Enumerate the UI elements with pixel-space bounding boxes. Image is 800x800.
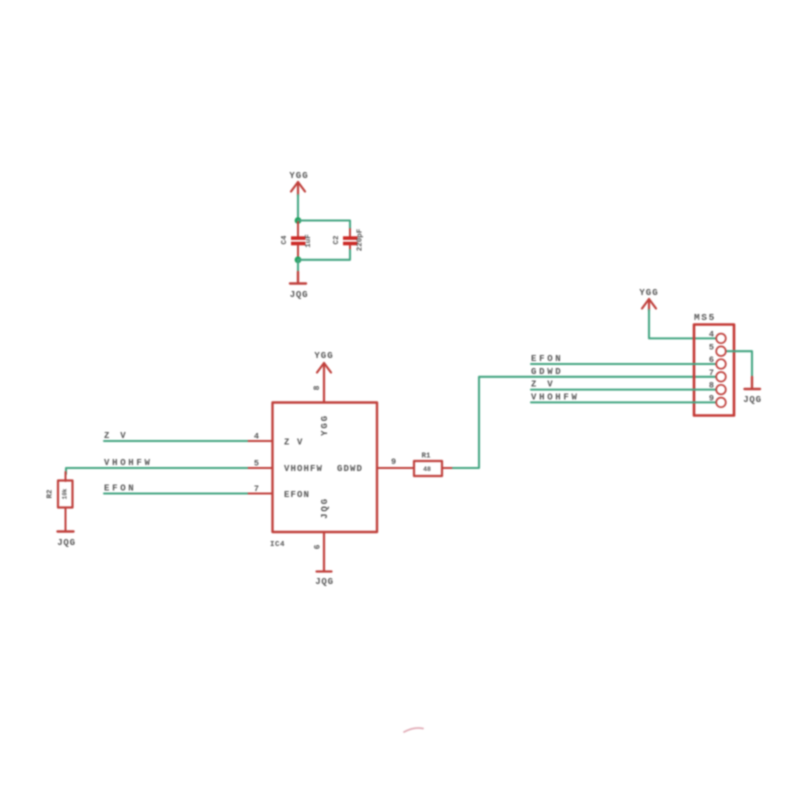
resistor R1 (U4) (414, 453, 454, 477)
stray faint mark bottom center (404, 728, 423, 732)
net wire Z V to connector pin 8 (531, 389, 716, 391)
svg-text:GDWD: GDWD (337, 464, 363, 474)
wire bottom junction to C2 bottom (298, 250, 350, 260)
svg-text:JQG: JQG (290, 290, 309, 300)
power symbol VDD arrow above IC (317, 363, 331, 402)
svg-text:IC4: IC4 (270, 541, 285, 549)
svg-text:EFON: EFON (104, 484, 136, 494)
ground symbol at connector (745, 377, 761, 389)
svg-text:Z V: Z V (104, 431, 128, 441)
svg-text:4: 4 (709, 330, 714, 340)
svg-text:6: 6 (709, 355, 714, 365)
ground symbol below R2 (58, 530, 74, 532)
svg-text:9: 9 (709, 394, 714, 404)
svg-text:JQG: JQG (315, 577, 334, 587)
svg-text:7: 7 (254, 484, 259, 494)
svg-text:EFON: EFON (284, 490, 310, 500)
svg-text:4: 4 (254, 432, 259, 442)
svg-text:5: 5 (254, 459, 259, 469)
pin 6 stub (bottom) + ground symbol (317, 532, 332, 572)
net wire VHOHFW to pin 5 (66, 468, 247, 474)
net wire EFON to pin 7 (104, 492, 247, 494)
svg-text:YGG: YGG (320, 414, 330, 436)
connector pin numbers 4-9 (709, 330, 714, 404)
net wire R1 to connector pin 7 (453, 377, 716, 468)
svg-text:GDWD: GDWD (531, 367, 563, 377)
node junction top (295, 217, 302, 224)
svg-text:5: 5 (709, 342, 714, 352)
resistor R2 (U5) (47, 472, 73, 531)
svg-text:6: 6 (314, 544, 323, 549)
svg-text:9: 9 (391, 457, 396, 467)
svg-text:48: 48 (423, 466, 431, 473)
svg-text:VHOHFW: VHOHFW (284, 464, 323, 474)
svg-text:YGG: YGG (314, 351, 333, 361)
op-amp / IC LF4 box (273, 403, 378, 533)
wire connector pin 5 to ground (727, 351, 752, 378)
svg-text:R1: R1 (421, 453, 431, 461)
power symbol VDD arrow (291, 182, 305, 196)
svg-text:8: 8 (313, 385, 322, 390)
node junction bottom (295, 256, 302, 263)
connector MS5 box (694, 325, 734, 416)
svg-text:C2: C2 (333, 235, 341, 245)
pin 5 stub (247, 467, 273, 469)
svg-text:EFON: EFON (531, 354, 563, 364)
capacitor C2 (F5) (333, 228, 365, 252)
wire junction to ground (297, 260, 299, 273)
pin 9 stub (right) (377, 467, 414, 469)
svg-text:1uF: 1uF (305, 234, 313, 248)
svg-text:10k: 10k (62, 488, 69, 499)
pin 4 stub (247, 440, 273, 442)
svg-text:JQG: JQG (743, 395, 762, 405)
svg-text:R2: R2 (47, 489, 55, 499)
svg-text:YGG: YGG (639, 288, 658, 298)
svg-text:JQG: JQG (320, 497, 330, 519)
svg-text:JQG: JQG (57, 538, 76, 548)
svg-text:VHOHFW: VHOHFW (104, 458, 153, 468)
capacitor C1 (F4) (281, 222, 313, 258)
wire VDD to connector pin 4 (649, 310, 716, 338)
svg-text:Z V: Z V (284, 438, 304, 448)
net wire VHOHFW to connector pin 9 (531, 401, 716, 403)
svg-text:VHOHFW: VHOHFW (531, 393, 580, 403)
ground symbol below capacitors (290, 272, 306, 284)
svg-text:7: 7 (709, 368, 714, 378)
svg-text:YGG: YGG (289, 171, 308, 181)
connector pin circles (716, 334, 726, 408)
power symbol VDD arrow at connector (642, 299, 656, 311)
svg-text:8: 8 (709, 381, 714, 391)
net wire Z V to pin 4 (104, 440, 247, 442)
pin 7 stub (247, 493, 273, 495)
svg-text:220pF: 220pF (357, 228, 365, 251)
svg-text:C4: C4 (281, 235, 289, 245)
wire VDD to junction (297, 195, 299, 221)
wire junction to C2 top (298, 221, 350, 232)
svg-text:Z V: Z V (531, 380, 555, 390)
svg-text:MS5: MS5 (694, 312, 716, 323)
net wire EFON to connector pin 6 (531, 363, 716, 365)
